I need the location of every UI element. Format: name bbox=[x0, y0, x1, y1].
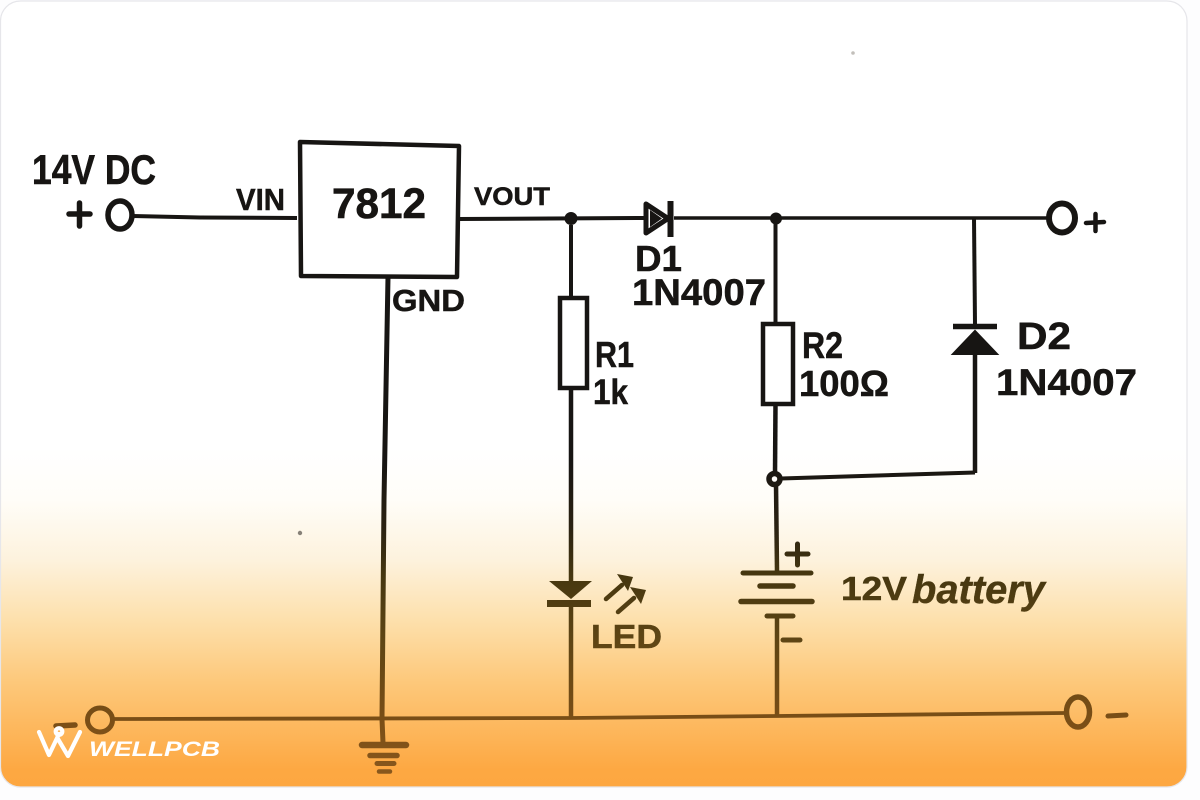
battery plus sign bbox=[787, 544, 808, 565]
paper speck bbox=[298, 531, 302, 535]
svg-text:100Ω: 100Ω bbox=[799, 363, 889, 404]
label 1N4007 for D1 bbox=[632, 272, 766, 313]
resistor R2 bbox=[763, 324, 793, 404]
label VIN bbox=[236, 182, 285, 217]
svg-text:R1: R1 bbox=[595, 334, 634, 375]
svg-text:WELLPCB: WELLPCB bbox=[89, 738, 220, 761]
svg-text:1N4007: 1N4007 bbox=[996, 362, 1137, 403]
wire junction to R1 bbox=[569, 225, 573, 300]
label R1 bbox=[595, 334, 634, 375]
svg-text:7812: 7812 bbox=[332, 180, 426, 228]
wire input to VIN bbox=[133, 216, 297, 218]
plus sign at input bbox=[69, 203, 90, 226]
svg-text:14V DC: 14V DC bbox=[32, 146, 156, 193]
wire D1 to output terminal bbox=[674, 216, 1049, 220]
wire VOUT to D1 bbox=[459, 218, 646, 219]
svg-text:1N4007: 1N4007 bbox=[632, 272, 766, 313]
label 100 ohm bbox=[799, 363, 889, 404]
label 1N4007 for D2 bbox=[996, 362, 1137, 403]
bottom rail wire bbox=[113, 713, 1065, 719]
svg-text:1k: 1k bbox=[593, 373, 628, 412]
label D1 bbox=[635, 238, 682, 279]
resistor R1 bbox=[560, 298, 587, 388]
node junction battery bbox=[769, 474, 780, 485]
battery minus sign bbox=[783, 638, 800, 643]
label LED bbox=[591, 618, 662, 655]
battery BT1 plates bbox=[741, 573, 812, 616]
svg-text:R2: R2 bbox=[802, 325, 843, 366]
wellpcb logo text bbox=[89, 738, 220, 761]
wire R2 to battery junction bbox=[773, 404, 778, 474]
input terminal bbox=[108, 201, 132, 229]
LED D3 bbox=[547, 581, 592, 604]
wire R1 to LED bbox=[569, 388, 574, 582]
wire junction to R2 bbox=[774, 224, 778, 326]
LED arrows bbox=[606, 574, 646, 612]
wellpcb logo mark bbox=[39, 728, 80, 756]
regulator U1 7812 box bbox=[300, 142, 459, 277]
wire battery junction down bbox=[776, 484, 777, 571]
label 12V battery bbox=[841, 568, 1047, 612]
diode D2 bbox=[953, 327, 997, 355]
wire D2 to bottom wire bbox=[973, 354, 978, 473]
plus sign at output bbox=[1086, 214, 1104, 231]
minus sign left bbox=[56, 725, 75, 726]
label D2 bbox=[1017, 316, 1071, 358]
node junction VOUT/R1 bbox=[565, 212, 578, 225]
paper speck bbox=[851, 51, 855, 55]
svg-text:VIN: VIN bbox=[236, 182, 285, 217]
svg-text:VOUT: VOUT bbox=[474, 183, 550, 211]
label 7812 bbox=[332, 180, 426, 228]
svg-text:12V: 12V bbox=[841, 570, 907, 607]
wire rail to D2 bbox=[974, 218, 975, 324]
minus sign right bbox=[1108, 715, 1126, 716]
ground symbol bbox=[362, 745, 406, 772]
diode D1 bbox=[646, 201, 671, 237]
wire junction to D2 bottom bbox=[781, 473, 975, 479]
svg-text:battery: battery bbox=[912, 568, 1047, 612]
svg-text:GND: GND bbox=[392, 283, 465, 318]
label GND bbox=[392, 283, 465, 318]
negative terminal right bbox=[1067, 697, 1090, 727]
output terminal plus bbox=[1049, 204, 1075, 233]
wire GND stem bbox=[382, 277, 388, 743]
label R2 bbox=[802, 325, 843, 366]
label 1k bbox=[593, 373, 628, 412]
svg-text:LED: LED bbox=[591, 618, 662, 655]
wire battery to bottom rail bbox=[775, 616, 780, 716]
label VOUT bbox=[474, 183, 550, 211]
wire LED to bottom rail bbox=[569, 606, 574, 717]
negative terminal left bbox=[88, 708, 113, 732]
node junction rail/R2 bbox=[770, 213, 782, 225]
label 14V DC bbox=[32, 146, 156, 193]
svg-text:D2: D2 bbox=[1017, 316, 1071, 358]
